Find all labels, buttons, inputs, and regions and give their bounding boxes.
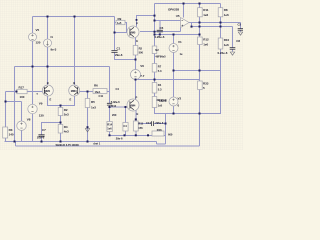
- svg-text:R7: R7: [158, 65, 162, 69]
- wire mid column x109: [109, 67, 111, 104]
- svg-text:R11: R11: [203, 8, 209, 12]
- source V6: [131, 70, 141, 80]
- resistor ladder1: [152, 46, 157, 54]
- svg-text:MM3: MM3: [71, 89, 77, 93]
- resistor R19 box: [123, 123, 128, 132]
- wire tap to R12col: [155, 79, 200, 81]
- svg-text:C1: C1: [117, 46, 121, 50]
- svg-text:E: E: [137, 112, 139, 116]
- wire ladder to bottom net: [155, 108, 222, 114]
- capacitor C6: [157, 30, 163, 32]
- svg-text:N2: N2: [155, 48, 159, 52]
- resistor R2: [58, 108, 63, 116]
- wire R4 bottom: [60, 133, 62, 142]
- capacitor C12: [107, 103, 112, 105]
- svg-text:R10: R10: [224, 38, 230, 42]
- svg-text:C14: C14: [146, 121, 151, 125]
- wire MM3 collector column: [74, 17, 76, 86]
- wire opamp minus bottom input stub: [180, 28, 182, 32]
- wire C8 column: [232, 27, 234, 48]
- junction x154 col y20: [154, 20, 156, 22]
- wire V6 top: [135, 60, 137, 70]
- wire R11-R12 column: [199, 17, 201, 37]
- svg-text:R8: R8: [224, 8, 228, 12]
- wire R14 bottom: [109, 132, 111, 136]
- ground symbol C8: [230, 52, 234, 55]
- svg-text:1e6: 1e6: [203, 13, 208, 17]
- svg-text:V1: V1: [178, 40, 182, 44]
- wire bottom rail2: [16, 145, 200, 147]
- wire MM1 collector: [47, 67, 49, 86]
- svg-text:V9: V9: [39, 101, 43, 105]
- junction V2 bottom net: [173, 113, 175, 115]
- svg-text:200: 200: [112, 113, 117, 117]
- junction supply R11: [199, 3, 201, 5]
- resistor R10: [218, 38, 223, 49]
- svg-text:C7: C7: [42, 128, 46, 132]
- wire right drop x165: [165, 114, 167, 144]
- wire V9 bottom: [32, 114, 34, 142]
- wire I1 column top: [47, 17, 49, 40]
- junction lower R11: [199, 26, 201, 28]
- wire R15 bottom: [135, 131, 137, 135]
- wire C6 bottom: [159, 32, 161, 35]
- transistor MM5: [127, 26, 139, 38]
- ground symbol C3: [238, 32, 242, 35]
- svg-text:0.26e-6: 0.26e-6: [155, 35, 165, 39]
- wire minus feedback branch: [140, 31, 181, 33]
- junction mid rail V5: [32, 66, 34, 68]
- svg-text:29e-6: 29e-6: [115, 53, 123, 57]
- junction cap row right: [165, 123, 167, 125]
- svg-text:R12: R12: [203, 38, 209, 42]
- junction rail1 R5col: [87, 141, 89, 143]
- svg-text:C11: C11: [99, 94, 104, 98]
- wire top rail: [33, 16, 115, 18]
- wire plus net horizontal: [155, 34, 200, 36]
- wire R17 left feed: [6, 91, 17, 93]
- junction top rail I1: [47, 16, 49, 18]
- svg-text:C6: C6: [160, 26, 164, 30]
- ground symbol left: [85, 129, 89, 132]
- junction bus R19: [124, 134, 126, 136]
- resistor R6: [93, 89, 107, 94]
- wire top rail corner down: [114, 17, 116, 51]
- wire R6 right to column: [107, 91, 110, 93]
- junction bus R14: [109, 134, 111, 136]
- capacitor C8: [230, 48, 236, 50]
- svg-text:49F96e5: 49F96e5: [155, 54, 166, 58]
- junction rail1 R4: [60, 141, 62, 143]
- wire R9 right link: [125, 23, 127, 33]
- svg-text:B: B: [47, 81, 49, 85]
- source V9: [28, 104, 37, 113]
- junction C6 bottom: [159, 34, 161, 36]
- svg-text:V8: V8: [27, 118, 31, 122]
- wire R5 to ground rail: [87, 108, 89, 142]
- svg-text:R15: R15: [138, 122, 143, 126]
- wire R8 top stub: [220, 4, 222, 8]
- svg-text:295e-6: 295e-6: [155, 121, 164, 125]
- wire left column x5: [5, 92, 7, 128]
- wire MM3 base to junction: [78, 91, 93, 93]
- resistor R33: [198, 81, 203, 90]
- junction V1V2 col mid: [173, 70, 175, 72]
- wire feedback mid horizontal: [174, 70, 221, 72]
- svg-text:29e-6: 29e-6: [116, 136, 123, 140]
- wire bottom bus: [110, 134, 153, 136]
- svg-text:600: 600: [168, 132, 173, 136]
- svg-text:R9: R9: [118, 17, 122, 21]
- wire R19 bottom: [125, 131, 127, 135]
- junction supply opamp: [183, 3, 185, 5]
- wire opamp supply stub: [183, 4, 185, 18]
- wire V6 tap: [136, 79, 155, 81]
- svg-text:R33: R33: [203, 82, 209, 86]
- junction C12 bottom: [109, 106, 111, 108]
- wire mid rail: [15, 66, 110, 68]
- wire C3 column: [240, 23, 242, 29]
- source V2: [169, 97, 178, 106]
- svg-text:R14: R14: [107, 122, 112, 126]
- wire MM4 base drop: [125, 107, 127, 123]
- junction lower R8: [220, 26, 222, 28]
- svg-text:R17: R17: [19, 86, 25, 90]
- resistor ladder3: [152, 83, 157, 94]
- wire C12 cross link: [110, 106, 126, 108]
- wire R3 bottom stub: [5, 138, 7, 142]
- svg-text:SHIELD 3.75 10000: SHIELD 3.75 10000: [56, 143, 80, 147]
- svg-text:5.3: 5.3: [158, 87, 162, 91]
- resistor R9: [116, 20, 125, 24]
- resistor ladder4: [152, 97, 157, 108]
- wire V1 to V2 column: [173, 53, 175, 98]
- svg-text:R6: R6: [94, 83, 98, 87]
- junction output R8: [220, 22, 222, 24]
- svg-text:E: E: [50, 98, 52, 102]
- svg-text:MM5: MM5: [130, 30, 136, 34]
- wire rail2 link: [15, 142, 17, 147]
- svg-text:V6: V6: [140, 64, 144, 68]
- junction output R11: [199, 22, 201, 24]
- junction mid rail I1: [47, 66, 49, 68]
- capacitor C7: [38, 135, 44, 137]
- resistor R14 box: [107, 122, 112, 132]
- junction x154 col y31: [154, 31, 156, 33]
- svg-text:P: P: [136, 21, 138, 25]
- junction top rail MM3: [74, 16, 76, 18]
- svg-text:140: 140: [9, 132, 14, 136]
- wire ladder link3: [154, 93, 156, 97]
- wire V2 bottom: [173, 106, 175, 114]
- svg-text:C4: C4: [116, 87, 120, 91]
- junction x154 col y34: [154, 34, 156, 36]
- svg-text:1e5: 1e5: [117, 21, 122, 25]
- wire C8 ground stub: [232, 49, 234, 51]
- junction emitter node: [135, 59, 137, 61]
- svg-text:100: 100: [20, 95, 25, 99]
- junction MM4 base: [125, 106, 127, 108]
- wire R5 column: [87, 92, 89, 99]
- junction x154 col y15: [154, 15, 156, 17]
- junction emitters join: [60, 105, 62, 107]
- wire rail2 right riser: [199, 114, 201, 147]
- wire output drop: [191, 23, 193, 27]
- source V8: [17, 121, 26, 130]
- svg-text:C4: C4: [123, 124, 127, 128]
- svg-text:R16: R16: [157, 128, 162, 132]
- junction rail1 x14: [14, 141, 16, 143]
- junction MM5 collector pin: [136, 19, 138, 21]
- resistor R3: [3, 127, 8, 138]
- svg-text:16e1: 16e1: [95, 90, 101, 94]
- junction bus R15: [135, 134, 137, 136]
- svg-text:E: E: [136, 39, 138, 43]
- source V5: [29, 33, 37, 41]
- wire MM1 emitter: [48, 96, 61, 106]
- wire MM1 base: [27, 91, 44, 93]
- svg-text:R2: R2: [64, 108, 68, 112]
- wire C3 ground stub: [240, 30, 242, 31]
- svg-text:156: 156: [138, 126, 143, 130]
- junction R12 col mid: [199, 70, 201, 72]
- junction R17 left: [16, 91, 18, 93]
- svg-text:C8: C8: [236, 39, 240, 43]
- wire R9 left stub: [115, 22, 117, 24]
- svg-text:9e-3: 9e-3: [51, 48, 57, 52]
- source V1: [169, 44, 178, 53]
- svg-text:49F96e5: 49F96e5: [156, 98, 167, 102]
- junction rail1 C7: [41, 141, 43, 143]
- wire V8 bottom: [21, 131, 23, 142]
- wire ladder link2: [154, 72, 156, 83]
- wire C12 bottom: [109, 105, 111, 121]
- svg-text:1e0: 1e0: [203, 42, 208, 46]
- wire C1 bottom elbow: [115, 52, 136, 59]
- junction x5 col: [5, 101, 7, 103]
- resistor R11: [198, 8, 203, 17]
- svg-text:1e6: 1e6: [224, 43, 229, 47]
- wire R16 right stub: [164, 134, 166, 136]
- transistor MM4: [127, 99, 139, 111]
- svg-text:E: E: [70, 98, 72, 102]
- junction V1 top: [173, 34, 175, 36]
- resistor R15: [133, 121, 138, 131]
- wire bottom rail1: [5, 141, 157, 143]
- resistor R12: [198, 37, 203, 45]
- svg-text:500: 500: [139, 50, 144, 54]
- capacitor C1: [111, 51, 117, 53]
- svg-text:0.22e-6: 0.22e-6: [218, 51, 228, 55]
- svg-text:5.32e-6: 5.32e-6: [111, 100, 120, 104]
- resistor R16: [152, 131, 164, 136]
- wire R12 column lower: [199, 45, 201, 114]
- wire MM4 emitter: [135, 111, 137, 122]
- wire cap row left: [138, 123, 152, 125]
- svg-text:1e3: 1e3: [91, 106, 96, 110]
- svg-text:OPA228: OPA228: [168, 8, 179, 12]
- junction R12 top: [199, 34, 201, 36]
- wire R11 top stub: [199, 4, 201, 8]
- current source I1: [44, 39, 52, 47]
- svg-text:7.7: 7.7: [140, 74, 144, 78]
- junction ladder tap: [154, 79, 156, 81]
- wire left column x14: [14, 67, 16, 142]
- wire MM5 emitter: [135, 37, 137, 59]
- svg-text:120: 120: [36, 41, 41, 45]
- svg-text:10e-6: 10e-6: [37, 136, 45, 140]
- svg-text:MM1: MM1: [44, 89, 50, 93]
- wire C7 bottom: [41, 136, 43, 141]
- wire I1 column to mid rail: [47, 47, 49, 67]
- wire rail jog: [157, 142, 166, 144]
- resistor R8: [218, 8, 223, 17]
- svg-text:V2: V2: [178, 97, 182, 101]
- junction MM4 emitter: [135, 118, 137, 120]
- svg-text:R2: R2: [139, 46, 143, 50]
- wire x154 column upper: [154, 4, 156, 47]
- wire V1 top stub: [173, 35, 175, 44]
- wire MM3 emitter: [61, 96, 75, 106]
- svg-text:C3: C3: [238, 23, 242, 27]
- wire output lower branch: [192, 26, 233, 28]
- wire opamp output: [189, 22, 241, 24]
- svg-text:1e6: 1e6: [224, 13, 229, 17]
- junction R5 col low: [87, 126, 89, 128]
- junction R2 bottom: [60, 122, 62, 124]
- svg-text:P: P: [136, 96, 138, 100]
- wire V9 column top: [32, 67, 34, 105]
- junction V6 bottom: [135, 79, 137, 81]
- svg-text:1e5: 1e5: [158, 104, 163, 108]
- wire C6 column: [159, 21, 161, 31]
- svg-text:2e3: 2e3: [64, 113, 69, 117]
- svg-text:B: B: [73, 81, 75, 85]
- resistor R7 ladder2: [152, 64, 157, 73]
- junction R12 col bottom net: [199, 113, 201, 115]
- junction R6 left: [87, 91, 89, 93]
- wire MM5 base: [115, 32, 130, 34]
- resistor R21 emitter: [133, 46, 138, 56]
- svg-text:130: 130: [39, 114, 44, 118]
- junction output bend: [191, 26, 193, 28]
- wire R8 bottom column: [220, 17, 222, 38]
- wire top right supply rail: [155, 3, 221, 5]
- junction MM5 base: [114, 32, 116, 34]
- wire ladder link1: [154, 54, 156, 64]
- capacitor C14: [152, 121, 154, 126]
- wire MM5 collector riser: [137, 16, 155, 27]
- capacitor C3: [238, 29, 243, 31]
- svg-text:V5: V5: [36, 28, 40, 32]
- resistor R4: [58, 125, 63, 134]
- wire emitter junction to R2: [60, 106, 62, 108]
- svg-text:I1: I1: [51, 35, 54, 39]
- wire R10 bottom column: [220, 49, 222, 114]
- svg-text:drei 1: drei 1: [93, 141, 100, 145]
- svg-text:5.3: 5.3: [158, 69, 162, 73]
- wire V8 feed horizontal: [6, 101, 22, 103]
- wire V5 column top: [32, 17, 34, 34]
- resistor R17: [17, 89, 27, 93]
- svg-text:1e6: 1e6: [107, 127, 112, 131]
- transistor MM1: [42, 85, 53, 96]
- svg-text:4e3: 4e3: [64, 129, 69, 133]
- svg-text:R12: R12: [111, 104, 116, 108]
- resistor R5: [85, 99, 90, 108]
- wire V6 to MM4: [135, 80, 137, 100]
- wire R2 to R4: [60, 116, 62, 125]
- op-amp U5 OPA228: [181, 18, 190, 28]
- svg-text:R5: R5: [91, 100, 95, 104]
- svg-text:U5: U5: [176, 14, 180, 18]
- junction bus R16: [147, 134, 149, 136]
- wire V5 column bottom to mid rail: [32, 41, 34, 67]
- svg-text:MM4: MM4: [130, 103, 136, 107]
- wire C7 branch: [42, 123, 61, 135]
- wire V8 top: [21, 102, 23, 122]
- transistor MM3: [69, 85, 80, 96]
- wire opamp minus input: [155, 20, 181, 22]
- svg-text:R4: R4: [158, 83, 162, 87]
- wire cap row right: [154, 123, 166, 125]
